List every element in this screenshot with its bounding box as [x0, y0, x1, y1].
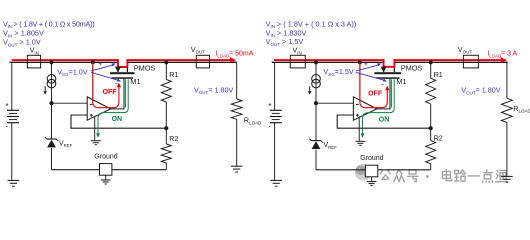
wire: bottom rail (left) — [52, 169, 167, 171]
wire: feedback loop to R1/R2 tap (left) — [71, 115, 166, 128]
ground (op-amp) (left) — [91, 140, 101, 142]
svg-text:+: + — [99, 62, 103, 68]
terminal box VIN (left) — [27, 55, 40, 68]
red OFF gate-charge path (left) — [93, 62, 119, 107]
resistor RLOAD (right) — [502, 98, 513, 122]
zener diode VREF (left) — [47, 138, 57, 140]
svg-text:−: − — [381, 82, 384, 88]
watermark logo circle — [355, 164, 372, 181]
svg-text:PMOS: PMOS — [134, 63, 156, 72]
op-amp error amplifier (left) — [87, 97, 111, 120]
resistor R1 (right) — [430, 62, 432, 78]
green ON gate-discharge path (left) — [125, 79, 127, 107]
terminal box VOUT (right) — [463, 55, 478, 68]
wire: op-amp V+ supply (right) — [359, 62, 361, 102]
ground (Ground terminal) (right) — [371, 177, 373, 182]
terminal box VIN (right) — [290, 55, 305, 68]
svg-text:R1: R1 — [169, 70, 178, 79]
svg-text:−: − — [115, 81, 118, 87]
wire: gate lead (right) — [377, 79, 390, 109]
svg-text:VSG=1.0V: VSG=1.0V — [57, 67, 88, 77]
resistor R2 (left) — [165, 128, 167, 144]
node: R1/R2 feedback tap (left) — [164, 126, 168, 130]
resistor R1 (left) — [165, 62, 167, 79]
wire: feedback loop to R1/R2 tap (right) — [337, 115, 431, 128]
node: rail-current source junction (right) — [314, 60, 318, 64]
PMOS pass transistor M1 (right) — [374, 72, 401, 74]
wire: op-amp V- to ground (left) — [94, 116, 96, 140]
ground (load) (right) — [501, 175, 513, 177]
terminal box Ground (right) — [365, 165, 377, 177]
ground (battery) (left) — [8, 179, 20, 181]
wire: inverting input (right) — [316, 102, 353, 104]
svg-text:Ground: Ground — [94, 154, 117, 161]
svg-text:R1: R1 — [434, 70, 443, 79]
wire: op-amp V- to ground (right) — [358, 116, 360, 141]
PMOS pass transistor M1 (left) — [110, 72, 135, 74]
blue arrow to gate (right) — [356, 72, 385, 80]
svg-text:M1: M1 — [130, 77, 140, 86]
svg-text:Ground: Ground — [360, 155, 383, 162]
svg-text:PMOS: PMOS — [401, 63, 423, 72]
blue arrow to gate (left) — [91, 72, 119, 80]
node: rail-R1 junction (left) — [164, 60, 168, 64]
node: VREF-opamp junction (right) — [314, 101, 318, 105]
node: rail-opamp supply junction (right) — [358, 60, 362, 64]
wire: bottom rail (right) — [316, 169, 431, 171]
wire: op-amp V+ supply (left) — [92, 62, 94, 102]
ground (battery) (right) — [270, 179, 282, 181]
wire: zener to bottom rail (right) — [315, 150, 317, 170]
blue arrow to source (left) — [91, 65, 114, 71]
battery input supply (left) — [7, 109, 19, 111]
node: VREF-opamp junction (left) — [49, 101, 53, 105]
wire: VREF bias branch (right) — [315, 62, 317, 140]
ground (op-amp) (right) — [355, 140, 365, 142]
svg-text:+: + — [364, 62, 368, 68]
resistor RLOAD (left) — [231, 99, 242, 119]
svg-text:ON: ON — [379, 117, 390, 124]
wire: load branch (left) — [236, 63, 238, 99]
ground (load) (left) — [231, 165, 243, 167]
wire: VREF bias branch (left) — [51, 62, 53, 139]
terminal box VOUT (left) — [196, 55, 209, 68]
wire: zener to bottom rail (left) — [51, 148, 53, 170]
svg-text:R2: R2 — [169, 134, 178, 143]
node: R1/R2 feedback tap (right) — [429, 126, 433, 130]
svg-text:ON: ON — [112, 116, 123, 123]
current source (bias) (left) — [47, 75, 56, 84]
svg-text:-: - — [6, 123, 8, 130]
svg-text:M1: M1 — [396, 77, 406, 86]
svg-text:OFF: OFF — [103, 89, 118, 96]
green ON gate-discharge path (right) — [391, 79, 393, 107]
watermark text — [380, 170, 390, 179]
terminal box Ground (left) — [100, 164, 112, 176]
node: rail-R1 junction (right) — [429, 60, 433, 64]
battery input supply (right) — [270, 109, 282, 111]
svg-text:VSG=1.5V: VSG=1.5V — [323, 67, 354, 77]
wire: inverting input (left) — [52, 102, 88, 104]
wire: gate lead (left) — [111, 79, 124, 109]
svg-text:R2: R2 — [434, 133, 443, 142]
node: rail-opamp supply junction (left) — [91, 60, 95, 64]
resistor R2 (right) — [430, 128, 432, 140]
node: rail-current source junction (left) — [49, 60, 53, 64]
op-amp error amplifier (right) — [353, 97, 377, 120]
red OFF gate-charge path (right) — [360, 62, 387, 107]
current source (bias) (right) — [312, 75, 321, 84]
blue arrow to source (right) — [356, 65, 380, 71]
red load-current path (right) — [274, 60, 502, 67]
zener diode VREF (right) — [311, 140, 321, 142]
red load-current path (left) — [12, 60, 232, 67]
svg-text:-: - — [269, 123, 271, 130]
wire: load branch (right) — [506, 63, 508, 98]
ground (Ground terminal) (left) — [105, 175, 107, 180]
svg-text:OFF: OFF — [368, 90, 383, 97]
wire: top rail VIN-to-VOUT (left) — [10, 62, 119, 72]
wire: top rail VIN-to-VOUT (right) — [272, 62, 384, 72]
